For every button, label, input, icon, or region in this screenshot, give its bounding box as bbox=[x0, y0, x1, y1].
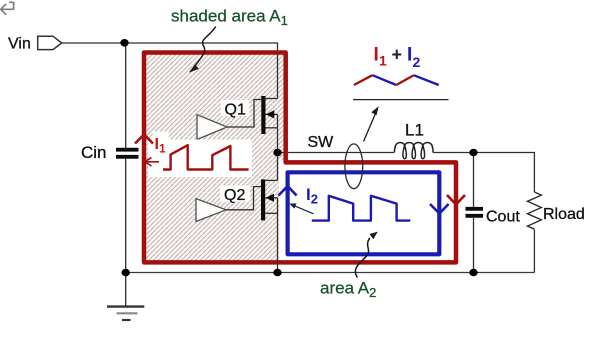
annotation arrow to area A2 bbox=[355, 238, 369, 278]
ripple baseline bbox=[353, 99, 449, 101]
svg-text:SW: SW bbox=[308, 134, 335, 151]
I2 current arrow (up, on blue boundary) bbox=[279, 186, 297, 196]
area A1 boundary (dark red loop) bbox=[144, 53, 456, 263]
svg-text:Cin: Cin bbox=[81, 143, 107, 162]
gate driver U1 (triangle) bbox=[197, 115, 227, 140]
wire Cout bottom lead bbox=[473, 218, 475, 273]
svg-text:Q1: Q1 bbox=[225, 101, 246, 118]
wire Rload bottom lead bbox=[533, 230, 535, 273]
I1 current waveform bbox=[163, 145, 249, 169]
junction output node bbox=[469, 149, 477, 157]
wire input junction to Q1 drain corner bbox=[125, 43, 278, 99]
resistor Rload bbox=[527, 192, 541, 229]
svg-text:Vin: Vin bbox=[8, 36, 31, 53]
Q2 label bbox=[220, 186, 250, 202]
Vin port symbol bbox=[38, 36, 62, 49]
capacitor Cin bbox=[116, 150, 139, 157]
red current arrow (down, red loop right side) bbox=[447, 195, 465, 205]
SW node wire to output bbox=[278, 152, 395, 154]
junction SW node bbox=[273, 149, 281, 157]
svg-text:Rload: Rload bbox=[543, 206, 585, 223]
junction ground at Cin bbox=[122, 269, 130, 277]
junction Vin node bbox=[120, 39, 128, 47]
junction ground at Q2 bbox=[273, 269, 281, 277]
svg-text:2: 2 bbox=[413, 54, 421, 70]
shaded area A1 hatch fill bbox=[146, 54, 283, 260]
I1 waveform background bbox=[148, 140, 252, 178]
annotation arrow to area A1 bbox=[195, 27, 216, 67]
blue current arrow (down, blue loop right side) bbox=[430, 204, 449, 214]
I1 ripple reference arrow (small left arrow) bbox=[145, 161, 159, 163]
svg-text:L1: L1 bbox=[405, 121, 424, 140]
gate driver U2 (triangle) bbox=[196, 199, 226, 222]
wire Vin to input junction bbox=[62, 42, 125, 44]
svg-text:I: I bbox=[407, 45, 412, 66]
inductor L1 bbox=[394, 142, 433, 158]
annotation arrow SW ellipse to ripple graph bbox=[364, 114, 376, 142]
Q1 label bbox=[221, 100, 249, 116]
I2 current waveform bbox=[312, 196, 411, 221]
junction ground at Cout bbox=[469, 269, 477, 277]
Q1 gate wire bbox=[227, 100, 261, 128]
svg-text:I: I bbox=[374, 45, 379, 66]
svg-text:+: + bbox=[392, 45, 403, 65]
svg-text:I2: I2 bbox=[306, 185, 318, 207]
SW highlight ellipse bbox=[345, 144, 363, 189]
ripple waveform blue segment 2 bbox=[414, 75, 439, 85]
I1 current arrow (up, on red boundary at Cin) bbox=[135, 135, 153, 144]
Q2 gate wire bbox=[226, 187, 261, 210]
capacitor Cout bbox=[466, 209, 484, 216]
transistor Q1 bbox=[261, 96, 277, 153]
return symbol bbox=[1, 2, 14, 15]
ripple waveform red segment 1 bbox=[354, 75, 373, 85]
ground bbox=[107, 273, 144, 321]
transistor Q2 bbox=[261, 153, 278, 273]
wire input junction down to Cin bbox=[125, 43, 127, 148]
svg-text:Cout: Cout bbox=[486, 209, 520, 226]
svg-text:1: 1 bbox=[379, 53, 387, 69]
svg-text:Q2: Q2 bbox=[224, 187, 245, 204]
I2 annotation arrow bbox=[293, 205, 314, 214]
wire L1 to output junction and load bbox=[433, 153, 534, 193]
ripple waveform blue segment 1 bbox=[372, 75, 396, 85]
area A2 boundary (blue loop) bbox=[288, 172, 440, 254]
wire Cin to ground junction bbox=[125, 159, 127, 273]
wire Cout top lead bbox=[473, 153, 475, 207]
ripple waveform red segment 2 bbox=[396, 75, 413, 85]
svg-text:shaded area A1: shaded area A1 bbox=[171, 7, 288, 29]
ground rail wire bbox=[126, 272, 535, 274]
svg-text:area A2: area A2 bbox=[320, 279, 376, 301]
